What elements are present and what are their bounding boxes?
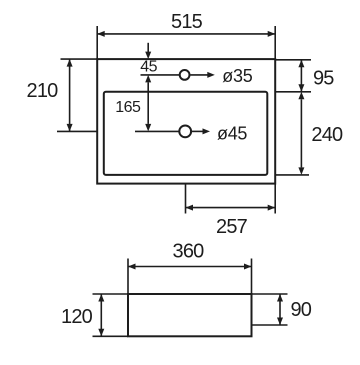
extension line: front bottom extended left for 120 <box>93 335 129 337</box>
dimension 120 top arrow <box>98 294 104 302</box>
dimension 120 line <box>100 294 102 336</box>
dimension 240 bottom arrow <box>298 167 304 175</box>
svg-text:ø35: ø35 <box>222 66 252 86</box>
extension line: left edge above rim for 515 <box>96 26 98 59</box>
extension line: rim top extended left for 210 <box>61 58 98 60</box>
front view: body rectangle <box>128 294 252 336</box>
dimension 515 left arrow <box>97 31 105 37</box>
dimension 210 line <box>69 59 71 131</box>
extension line: front top extended left for 120 <box>93 293 129 295</box>
dimension 120 bottom arrow <box>98 329 104 337</box>
svg-text:360: 360 <box>173 240 205 262</box>
dimension 515 right arrow <box>268 31 276 37</box>
extension line: front top extended right for 90 <box>252 293 288 295</box>
dimension 90 bottom arrow <box>277 318 283 326</box>
hole 2 center line <box>135 130 179 132</box>
svg-text:120: 120 <box>61 306 93 328</box>
plan view: outer rim rectangle <box>97 59 275 184</box>
dimension 210 bottom arrow <box>67 124 73 131</box>
extension line: hole2 axis extended left for 210 <box>57 130 97 132</box>
svg-text:ø45: ø45 <box>217 124 247 144</box>
svg-text:45: 45 <box>140 59 157 76</box>
extension line: back height step for 90 <box>252 324 288 326</box>
tap hole circle ø35 <box>180 70 190 80</box>
svg-text:210: 210 <box>27 80 59 102</box>
dimension 95 line <box>300 60 302 92</box>
extension line: front right edge up for 360 <box>251 259 253 295</box>
dimension 45 down arrow onto rim <box>145 52 151 60</box>
extension line: basin bottom extended right for 240 <box>275 174 309 176</box>
svg-text:95: 95 <box>313 68 334 90</box>
extension line: right edge above rim for 515 <box>274 26 276 59</box>
dimension 165 down arrow at hole2 axis <box>145 124 151 131</box>
dimension 165 line <box>147 82 149 124</box>
extension line: rim top extended right for 95 <box>275 59 311 61</box>
dimension 210 top arrow <box>67 59 73 67</box>
hole 1 center line <box>141 74 180 76</box>
dimension 95 top arrow <box>298 60 304 68</box>
dimension 90 line <box>279 294 281 325</box>
dimension 95 bottom arrow <box>298 84 304 92</box>
extension line: front left edge up for 360 <box>127 259 129 295</box>
dimension 45 upper leader line <box>147 43 149 53</box>
dimension 90 top arrow <box>277 294 283 302</box>
svg-text:90: 90 <box>290 299 311 321</box>
extension line: basin top extended right for 95/240 <box>275 91 311 93</box>
svg-text:515: 515 <box>171 11 203 33</box>
svg-text:240: 240 <box>311 124 343 146</box>
dimension 257 left arrow <box>186 205 194 211</box>
dimension 240 line <box>300 99 302 167</box>
drain hole circle ø45 <box>179 125 191 137</box>
hole 1 leader arrow <box>190 74 208 76</box>
dimension 515 line <box>97 33 275 35</box>
dimension 257 line <box>186 207 276 209</box>
svg-text:257: 257 <box>216 216 248 238</box>
dimension 240 top arrow <box>298 92 304 100</box>
dimension 360 right arrow <box>244 264 252 270</box>
extension line: rim right below for 257 <box>274 184 276 214</box>
extension line: drain axis below rim for 257 <box>185 184 187 214</box>
dimension 165 up arrow at hole1 axis <box>145 75 151 83</box>
dimension 360 left arrow <box>128 264 136 270</box>
svg-text:165: 165 <box>115 99 141 116</box>
hole 2 leader arrow <box>192 130 204 132</box>
dimension 360 line <box>128 266 252 268</box>
dimension 257 right arrow <box>268 205 276 211</box>
plan view: inner basin rectangle <box>104 92 267 175</box>
